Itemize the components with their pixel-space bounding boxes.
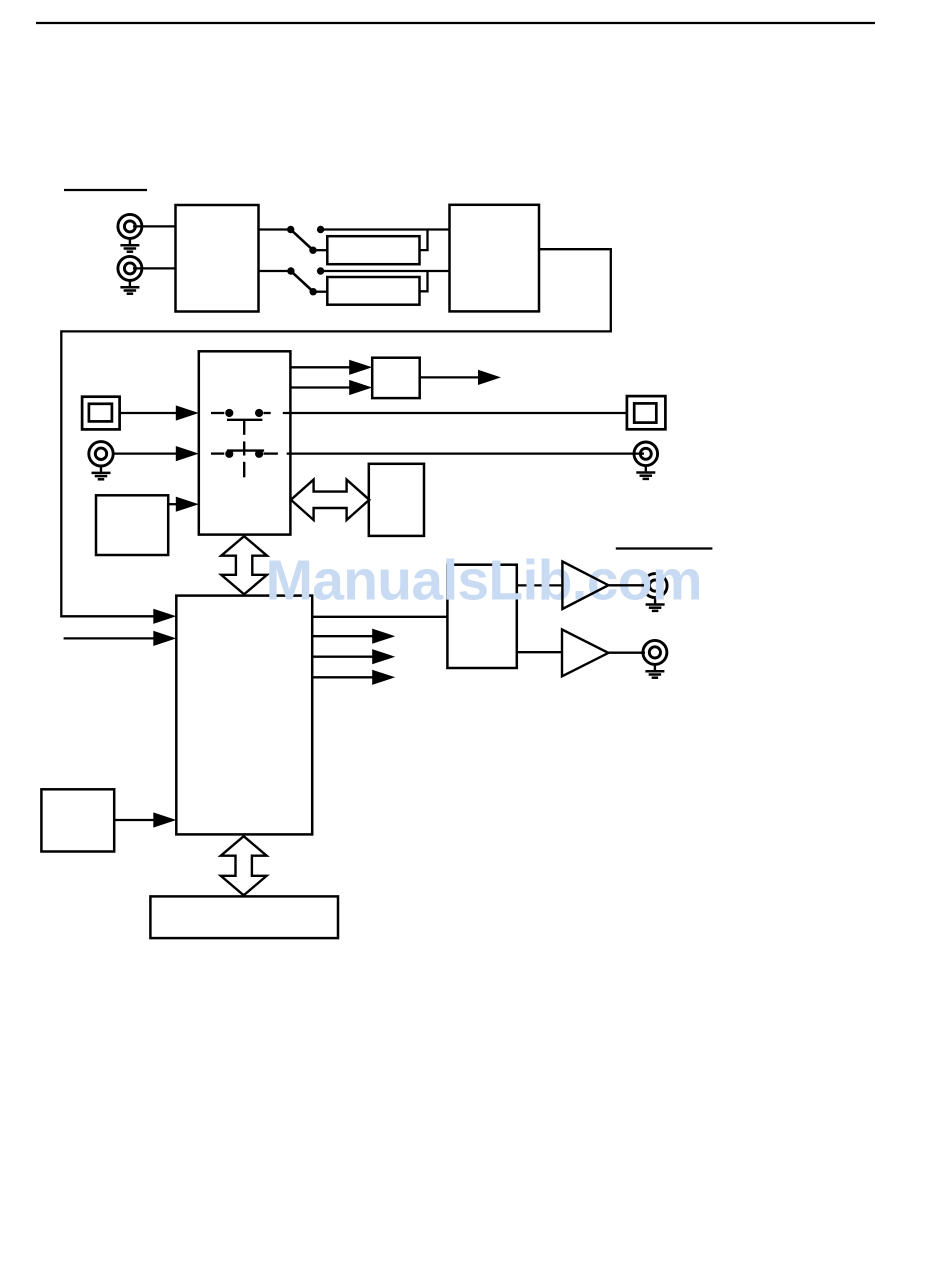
svg-text:ManualsLib.com: ManualsLib.com	[266, 549, 703, 613]
